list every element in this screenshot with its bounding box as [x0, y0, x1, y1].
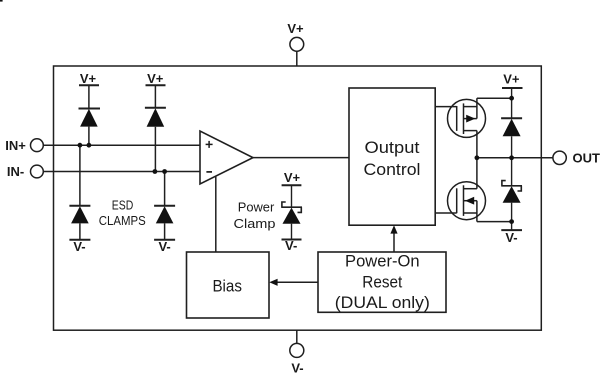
svg-text:Bias: Bias	[212, 277, 242, 296]
svg-text:V+: V+	[80, 71, 97, 86]
svg-text:CLAMPS: CLAMPS	[99, 214, 146, 228]
svg-text:V-: V-	[73, 239, 85, 254]
svg-text:V+: V+	[147, 71, 164, 86]
svg-text:OUT: OUT	[573, 151, 601, 166]
svg-text:V-: V-	[285, 238, 297, 253]
svg-text:Reset: Reset	[362, 273, 402, 291]
svg-text:Control: Control	[364, 161, 421, 179]
svg-text:V-: V-	[158, 239, 170, 254]
svg-text:V-: V-	[505, 230, 517, 245]
svg-text:ESD: ESD	[112, 199, 134, 213]
svg-text:IN+: IN+	[5, 138, 26, 153]
svg-text:V+: V+	[287, 21, 304, 36]
svg-text:V-: V-	[291, 360, 303, 375]
svg-text:Output: Output	[365, 139, 420, 157]
svg-text:Power-On: Power-On	[345, 253, 420, 271]
svg-text:IN-: IN-	[7, 164, 24, 179]
svg-text:(DUAL only): (DUAL only)	[335, 294, 430, 312]
svg-text:Power: Power	[238, 201, 275, 215]
svg-text:V+: V+	[284, 170, 301, 185]
svg-text:V+: V+	[503, 71, 520, 86]
svg-text:Clamp: Clamp	[234, 217, 276, 231]
